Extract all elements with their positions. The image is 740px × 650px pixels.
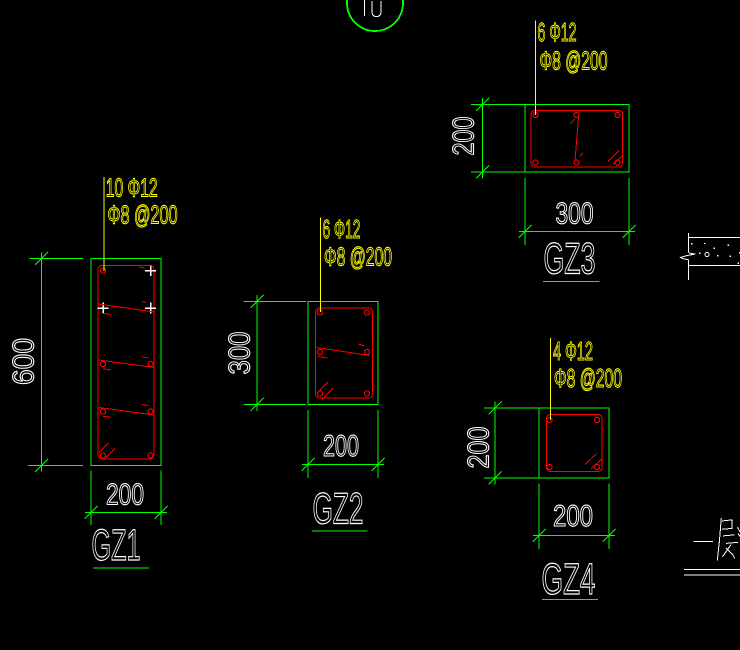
svg-text:6 Φ12: 6 Φ12 bbox=[323, 214, 361, 244]
svg-text:300: 300 bbox=[224, 332, 257, 375]
svg-text:Φ8 @200: Φ8 @200 bbox=[554, 363, 622, 393]
svg-text:GZ1: GZ1 bbox=[92, 521, 141, 570]
svg-text:200: 200 bbox=[323, 430, 359, 463]
svg-text:300: 300 bbox=[556, 198, 594, 231]
svg-text:200: 200 bbox=[448, 117, 481, 156]
svg-text:10 Φ12: 10 Φ12 bbox=[106, 173, 158, 203]
svg-text:600: 600 bbox=[8, 338, 41, 385]
svg-text:GZ2: GZ2 bbox=[313, 485, 364, 534]
svg-text:Φ8 @200: Φ8 @200 bbox=[540, 46, 608, 76]
svg-text:GZ3: GZ3 bbox=[544, 235, 596, 284]
svg-text:4 Φ12: 4 Φ12 bbox=[553, 336, 593, 366]
svg-text:Φ8 @200: Φ8 @200 bbox=[108, 200, 178, 230]
svg-text:200: 200 bbox=[463, 427, 496, 469]
svg-text:200: 200 bbox=[106, 479, 144, 512]
svg-text:6 Φ12: 6 Φ12 bbox=[538, 17, 577, 47]
svg-text:Φ8 @200: Φ8 @200 bbox=[324, 242, 392, 272]
svg-text:200: 200 bbox=[553, 500, 593, 533]
svg-text:GZ4: GZ4 bbox=[542, 555, 596, 604]
